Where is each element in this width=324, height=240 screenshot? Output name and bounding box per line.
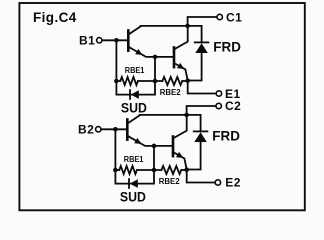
node RBE1 right / RBE2 left: [153, 79, 158, 84]
resistor RBE1 lead right: [137, 169, 162, 171]
node B1 junction: [114, 38, 119, 43]
transistor Q1 emitter: [128, 47, 174, 57]
svg-text:RBE2: RBE2: [159, 176, 180, 186]
svg-text:RBE2: RBE2: [160, 87, 181, 97]
resistor RBE1 zigzag: [120, 77, 138, 85]
svg-text:FRD: FRD: [212, 129, 240, 144]
transistor Q4 base bar: [172, 137, 175, 157]
svg-text:B2: B2: [78, 123, 94, 137]
svg-text:SUD: SUD: [120, 188, 146, 204]
wire base column down to SUD loop: [115, 129, 154, 183]
transistor Q3 base bar: [126, 120, 129, 140]
svg-text:RBE1: RBE1: [125, 65, 145, 75]
terminal E2: [215, 180, 220, 185]
wire C2 stub: [187, 106, 216, 115]
transistor Q1 collector: [128, 26, 141, 34]
svg-text:RBE1: RBE1: [124, 154, 144, 164]
resistor RBE2 zigzag: [162, 77, 182, 85]
diode SUD cathode bar: [129, 90, 131, 99]
wire emitter rail to E2: [187, 170, 215, 183]
resistor RBE2 lead right: [182, 80, 187, 82]
diode FRD triangle: [195, 43, 208, 53]
node collector rail junction: [185, 24, 190, 29]
transistor Q3 emitter arrow: [134, 138, 141, 144]
wire C1 stub: [188, 17, 217, 26]
node RBE2 right / E junction: [185, 78, 190, 83]
svg-text:FRD: FRD: [213, 40, 241, 55]
transistor Q2 emitter: [174, 63, 188, 81]
resistor RBE1 lead right: [138, 80, 163, 82]
diode FRD cathode bar: [195, 41, 209, 43]
wire emitter rail to E1: [188, 81, 216, 94]
terminal C2: [216, 103, 221, 108]
resistor RBE1 zigzag: [119, 166, 137, 174]
border frame of figure box: [19, 3, 304, 210]
transistor Q3 collector: [127, 115, 140, 123]
resistor RBE2 zigzag: [161, 166, 181, 174]
diode FRD triangle: [194, 132, 207, 142]
resistor RBE1 lead left: [115, 169, 119, 171]
terminal C1: [217, 14, 222, 19]
wire top collector rail: [140, 115, 201, 131]
svg-text:SUD: SUD: [121, 99, 147, 115]
svg-text:Fig.C4: Fig.C4: [33, 10, 77, 25]
wire B1 to Q1 base: [102, 39, 127, 41]
svg-text:C2: C2: [225, 99, 241, 113]
svg-text:B1: B1: [79, 34, 95, 48]
node RBE2 right / E junction: [184, 167, 189, 172]
wire FRD anode to emitter node: [188, 53, 202, 81]
terminal E1: [216, 91, 221, 96]
resistor RBE2 lead right: [181, 169, 186, 171]
wire top collector rail: [141, 26, 202, 42]
transistor Q2 base bar: [173, 48, 176, 68]
transistor Q1 emitter arrow: [135, 49, 142, 55]
node Q1 emitter / Q2 base: [153, 55, 158, 60]
diode SUD triangle: [131, 90, 139, 99]
wire B2 to Q3 base: [101, 128, 126, 130]
node Q3 emitter / Q4 base: [152, 144, 157, 149]
terminal B2: [96, 127, 101, 132]
node RBE1 left: [114, 79, 119, 84]
transistor Q4 emitter: [173, 152, 187, 170]
svg-text:C1: C1: [226, 11, 242, 25]
svg-text:E2: E2: [225, 176, 241, 190]
transistor Q2 collector: [174, 28, 188, 49]
wire FRD anode to emitter node: [187, 142, 201, 170]
diode SUD triangle: [130, 179, 138, 188]
terminal B1: [97, 38, 102, 43]
wire base column down to SUD loop: [116, 40, 155, 94]
node RBE1 right / RBE2 left: [152, 168, 157, 173]
node collector rail junction: [184, 113, 189, 118]
node B2 junction: [113, 127, 118, 132]
diode FRD cathode bar: [194, 130, 208, 132]
diode SUD cathode bar: [128, 179, 130, 188]
resistor RBE1 lead left: [116, 80, 120, 82]
transistor Q4 emitter arrow: [176, 152, 183, 158]
transistor Q2 emitter arrow: [177, 63, 184, 69]
transistor Q3 emitter: [127, 136, 173, 146]
transistor Q1 base bar: [127, 31, 130, 51]
node RBE1 left: [113, 168, 118, 173]
transistor Q4 collector: [173, 117, 187, 138]
